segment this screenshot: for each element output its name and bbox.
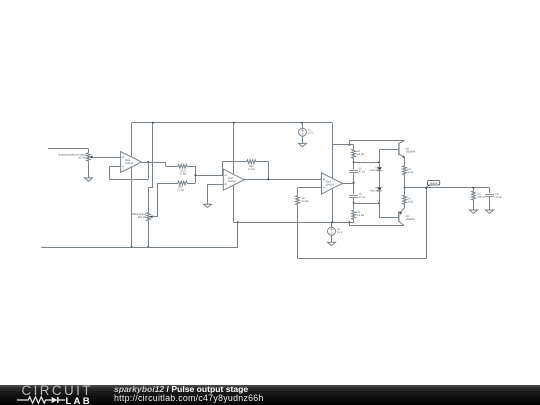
svg-text:47 µF: 47 µF [359,170,366,173]
svg-text:2N3906: 2N3906 [406,218,416,221]
svg-text:6.8 kΩ: 6.8 kΩ [357,153,365,156]
svg-text:LM324: LM324 [228,180,236,183]
svg-text:6.8 kΩ: 6.8 kΩ [357,214,365,217]
svg-text:22 kΩ: 22 kΩ [302,200,309,203]
svg-text:2N3904: 2N3904 [406,151,416,154]
svg-text:1N4148: 1N4148 [370,189,379,192]
svg-text:10 Ω: 10 Ω [408,201,414,204]
svg-text:10 Ω: 10 Ω [408,171,414,174]
svg-text:27 kΩ: 27 kΩ [177,189,184,192]
svg-text:10 nF: 10 nF [495,196,502,199]
svg-text:output: output [430,182,437,185]
svg-text:15 V: 15 V [337,231,343,234]
svg-text:LM324: LM324 [326,184,334,187]
svg-text:LM324: LM324 [125,162,133,165]
svg-text:1N4148: 1N4148 [370,169,379,172]
svg-text:200 kΩ: 200 kΩ [78,156,86,159]
svg-text:47 µF: 47 µF [359,196,366,199]
svg-text:200 kΩ: 200 kΩ [138,216,146,219]
svg-text:27 kΩ: 27 kΩ [179,173,186,176]
svg-text:15 V: 15 V [308,132,314,135]
svg-text:27 kΩ: 27 kΩ [248,168,255,171]
svg-text:600 Ω: 600 Ω [478,196,485,199]
